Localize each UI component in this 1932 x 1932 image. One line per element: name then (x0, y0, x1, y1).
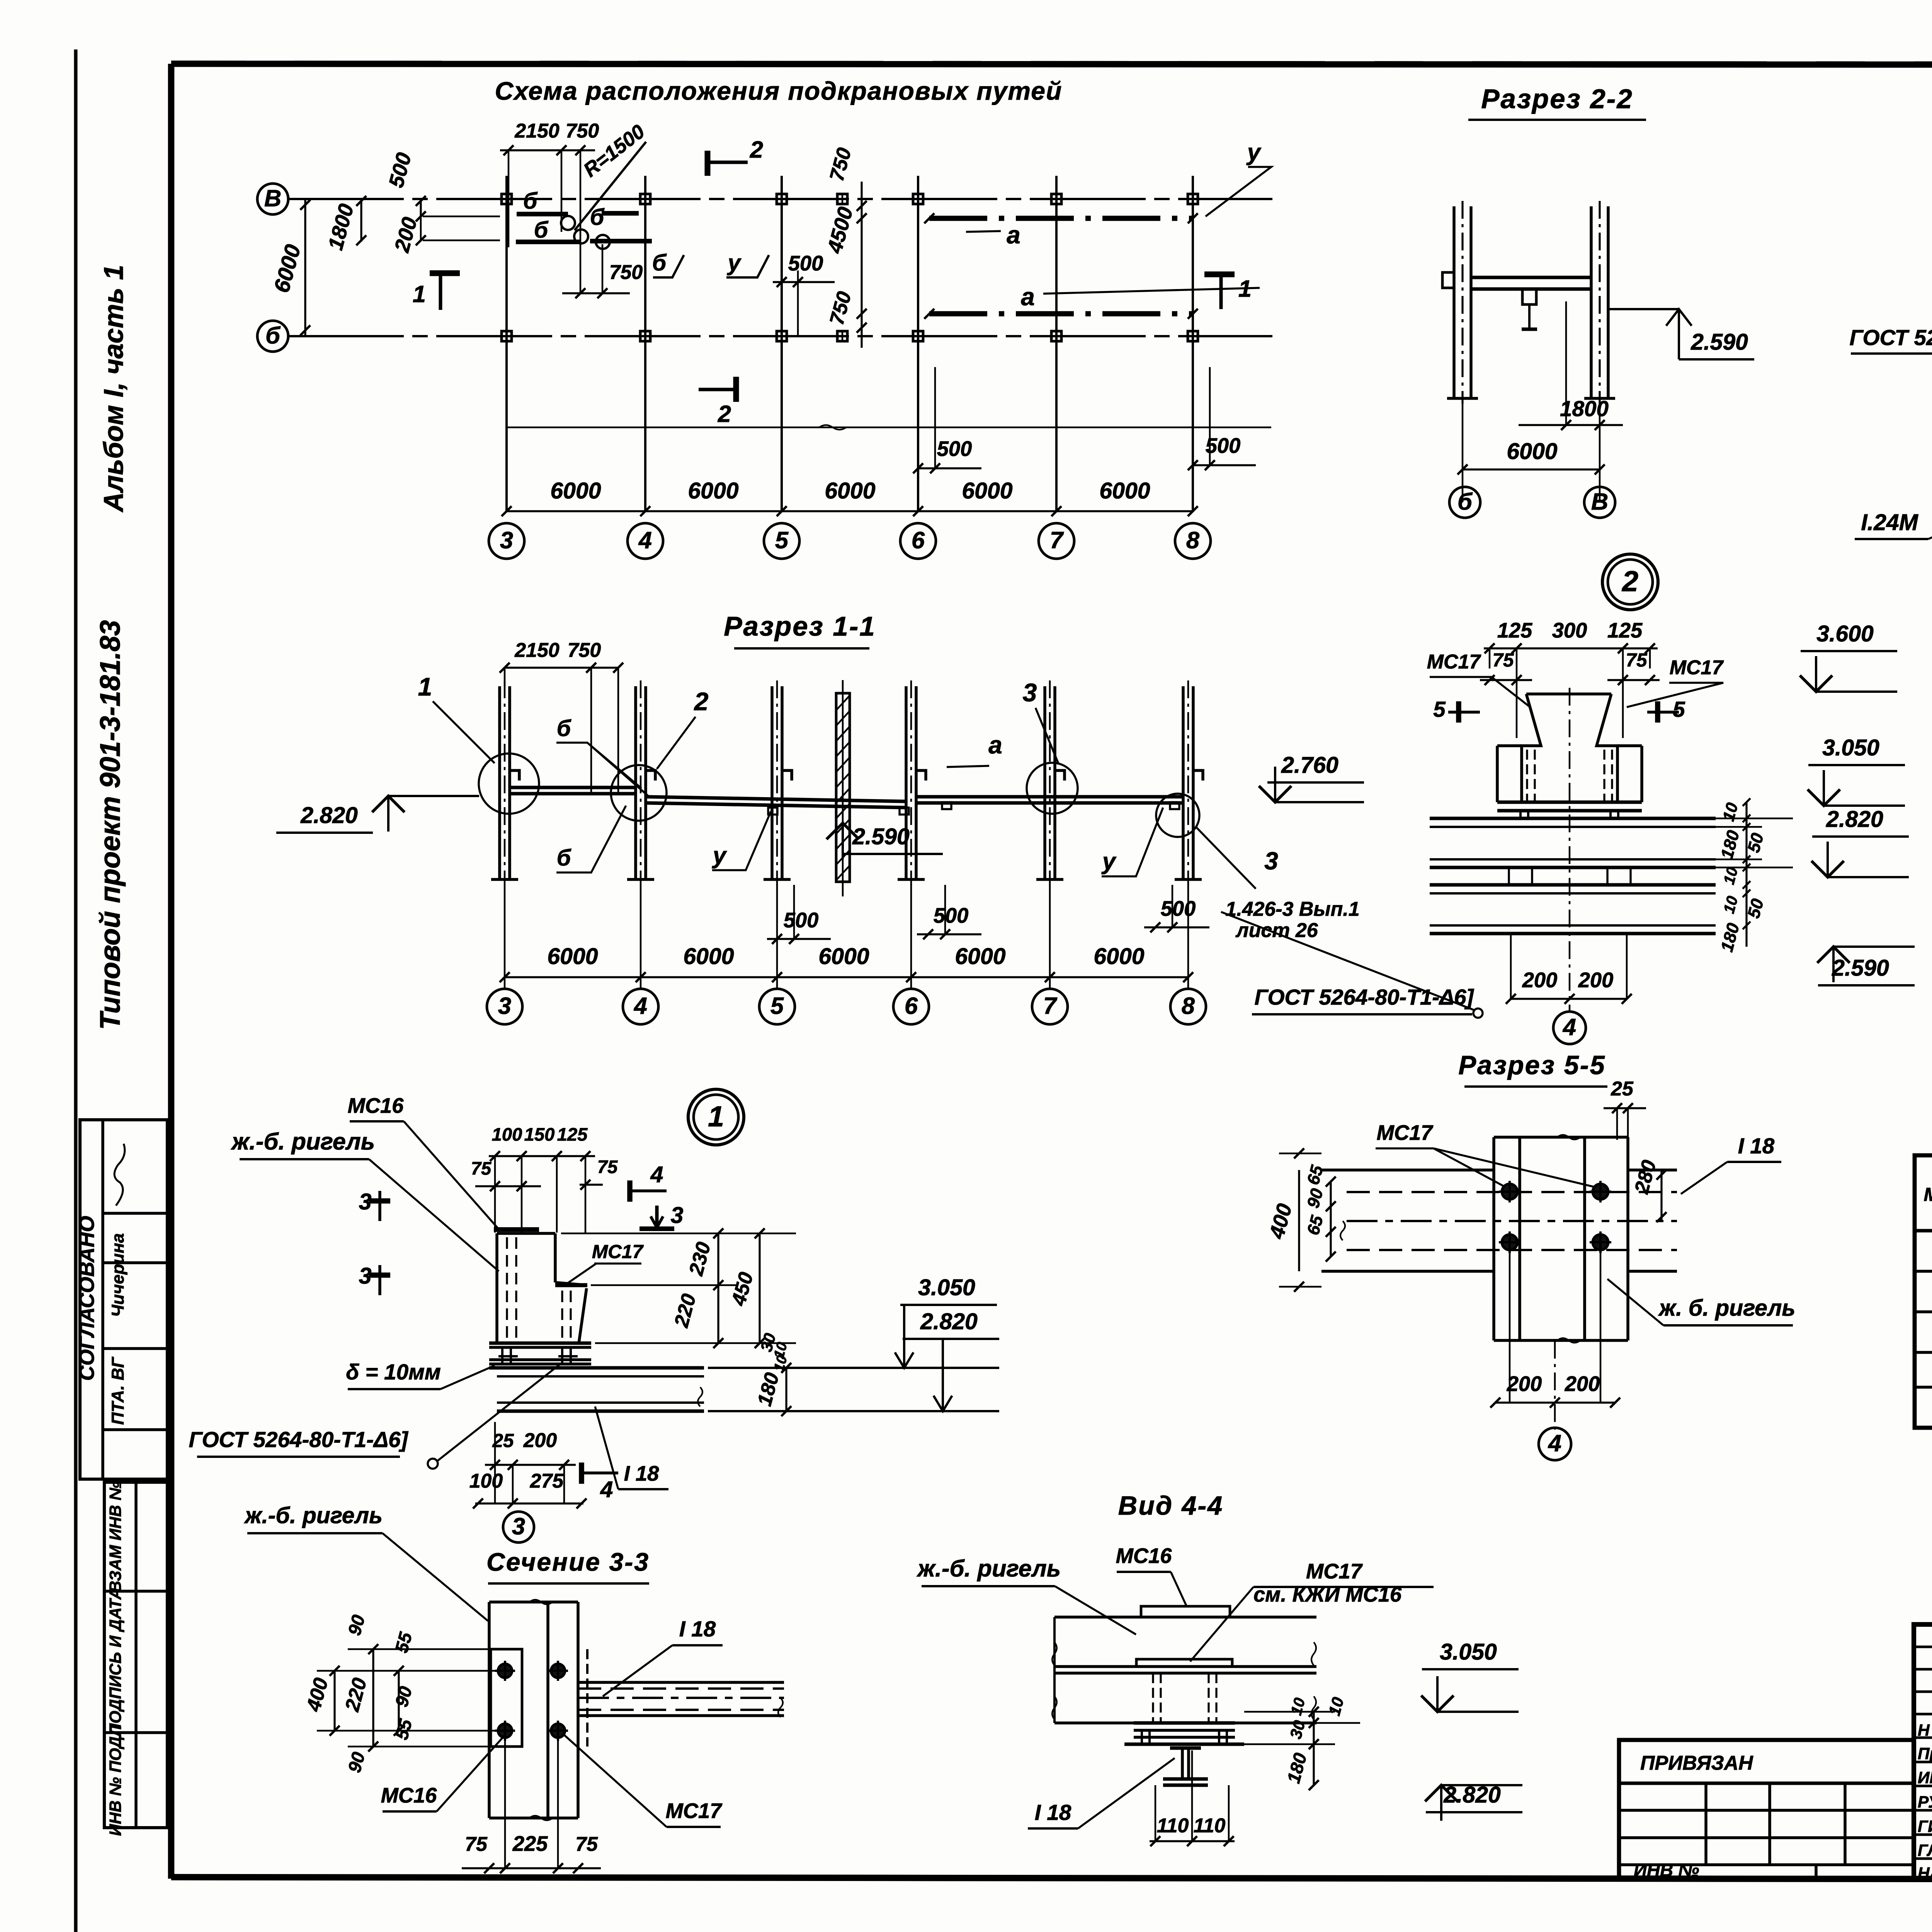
axis bubbles 3-8 (487, 989, 522, 1024)
svg-text:5: 5 (1433, 697, 1446, 722)
section mark 4 top node1 (627, 1180, 633, 1202)
svg-text:2.820: 2.820 (1826, 806, 1883, 832)
svg-text:3: 3 (359, 1189, 372, 1214)
axis bubble 4 5-5 (1539, 1428, 1571, 1460)
column base ticks (1447, 397, 1478, 400)
svg-text:110: 110 (1194, 1815, 1226, 1837)
beam supports hatching small (1509, 867, 1532, 885)
grid line b (288, 335, 1272, 337)
svg-text:I 18: I 18 (624, 1462, 659, 1485)
svg-text:6000: 6000 (688, 478, 738, 503)
svg-text:6000: 6000 (962, 478, 1012, 503)
column body node2 (1522, 694, 1541, 802)
svg-text:3: 3 (498, 993, 511, 1019)
svg-text:750: 750 (566, 120, 599, 142)
svg-text:Схема расположения подкрановых: Схема расположения подкрановых путей (495, 77, 1063, 105)
section 5 marks (1456, 701, 1461, 723)
base plates node2 (1497, 801, 1642, 804)
svg-text:750: 750 (609, 261, 643, 284)
left dims 400 / 65 90 65 (1298, 1170, 1300, 1271)
lower beam (I18) (1430, 883, 1716, 887)
column squares (502, 194, 512, 204)
right column I-section (1590, 206, 1593, 398)
hanger bolts dashed (1152, 1673, 1154, 1723)
svg-text:Вид 4-4: Вид 4-4 (1118, 1491, 1223, 1520)
svg-text:75: 75 (1626, 649, 1648, 671)
I18 rail below (1170, 1747, 1201, 1750)
svg-text:2: 2 (718, 401, 731, 427)
svg-text:6000: 6000 (955, 944, 1005, 969)
crane beam upper level (2.820) cols 3-4 (510, 786, 636, 789)
svg-text:6: 6 (905, 993, 918, 1019)
bolts 5-5 (1502, 1184, 1517, 1199)
svg-text:25: 25 (1611, 1078, 1634, 1100)
column verticals (505, 176, 508, 512)
bottom plate stack (1134, 1721, 1235, 1725)
bottom dimension chain 6000s (507, 510, 1193, 512)
stamp outer (1914, 1624, 1932, 1879)
section mark 2 top (705, 151, 711, 176)
svg-text:500: 500 (788, 252, 823, 275)
svg-text:4: 4 (633, 993, 647, 1019)
section mark 3 down-arrow (655, 1206, 659, 1226)
svg-text:4: 4 (600, 1477, 613, 1502)
svg-text:3: 3 (671, 1202, 684, 1228)
svg-text:4: 4 (638, 527, 652, 554)
table frame (1915, 1155, 1932, 1428)
svg-text:б: б (534, 217, 549, 243)
bolts below plate (501, 1347, 503, 1363)
small dims 10/50/180 right chain (1642, 818, 1793, 820)
svg-text:1: 1 (418, 673, 432, 701)
node bubble 2 (1602, 554, 1658, 610)
svg-text:200: 200 (1565, 1372, 1600, 1396)
left column I-section (1452, 206, 1456, 398)
svg-text:7: 7 (1043, 993, 1058, 1019)
MS16 plate top (1141, 1606, 1230, 1617)
crane rail a lower (929, 311, 1193, 316)
svg-text:ГОСТ 5264-80-Т1-Δ6]: ГОСТ 5264-80-Т1-Δ6] (1849, 326, 1932, 350)
level 2.590 (1608, 308, 1679, 310)
svg-text:125: 125 (557, 1124, 588, 1145)
rail end detail at R=1500 (423, 216, 500, 218)
svg-text:Марка: Марка (1924, 1184, 1932, 1205)
svg-text:1: 1 (708, 1100, 724, 1133)
svg-text:МС16: МС16 (1116, 1544, 1172, 1568)
svg-text:Альбом I, часть 1: Альбом I, часть 1 (99, 265, 129, 512)
svg-text:МС17: МС17 (1670, 656, 1724, 679)
svg-text:2.820: 2.820 (300, 803, 358, 828)
columns with corbels (498, 686, 501, 879)
MS17 plate mid (1136, 1659, 1232, 1667)
svg-text:3: 3 (512, 1513, 525, 1540)
svg-text:125: 125 (1497, 619, 1532, 642)
svg-text:2.590: 2.590 (1690, 329, 1748, 355)
svg-text:200: 200 (1507, 1372, 1542, 1396)
crane rail a upper (dash-dot thick) (929, 216, 1193, 221)
right dim chains node1 (561, 1233, 796, 1235)
svg-text:МС17: МС17 (1306, 1560, 1363, 1583)
axis bubble 4 node2 (1553, 1012, 1586, 1044)
dashed edge MS17 3-3 (586, 1649, 588, 1747)
svg-text:3: 3 (500, 527, 513, 554)
svg-text:3: 3 (1264, 847, 1278, 875)
svg-text:6: 6 (912, 527, 925, 554)
sheet outer edge (74, 49, 78, 1932)
svg-text:1: 1 (1238, 276, 1252, 302)
svg-text:4: 4 (650, 1162, 663, 1187)
svg-text:5: 5 (775, 527, 789, 554)
svg-text:МС16: МС16 (348, 1094, 404, 1117)
svg-text:б: б (265, 322, 281, 349)
svg-text:Разрез 2-2: Разрез 2-2 (1481, 84, 1633, 114)
delta plate (489, 1358, 591, 1361)
svg-text:200: 200 (523, 1429, 557, 1452)
svg-text:200: 200 (1522, 968, 1558, 992)
base plates node1 (489, 1342, 591, 1345)
svg-text:б: б (523, 188, 538, 214)
svg-text:ГОСТ 5264-80-Т1-Δ6]: ГОСТ 5264-80-Т1-Δ6] (189, 1428, 408, 1452)
beam between columns (1471, 276, 1591, 279)
hatched wall column (836, 693, 850, 882)
svg-text:110: 110 (1157, 1815, 1189, 1837)
svg-text:МС17: МС17 (1427, 651, 1481, 673)
svg-text:2: 2 (750, 136, 763, 163)
svg-text:500: 500 (937, 437, 972, 461)
svg-text:а: а (988, 731, 1002, 759)
centerline node2 (1569, 688, 1571, 1012)
svg-text:150: 150 (524, 1124, 555, 1145)
svg-text:ж.-б. ригель: ж.-б. ригель (244, 1503, 383, 1528)
axis bubble b (257, 321, 288, 352)
svg-text:3.050: 3.050 (1440, 1639, 1497, 1665)
svg-text:100: 100 (469, 1470, 503, 1492)
svg-text:300: 300 (1552, 619, 1587, 642)
right small dims 10/30/180 4-4 (1244, 1711, 1335, 1713)
svg-text:I 18: I 18 (679, 1617, 716, 1641)
section mark 2 bottom (733, 377, 739, 402)
break line mid (507, 427, 1271, 429)
svg-text:ж.-б. ригель: ж.-б. ригель (231, 1128, 375, 1155)
svg-text:2150: 2150 (514, 120, 560, 142)
axis bubble V (1584, 487, 1615, 518)
svg-text:ВЗАМ ИНВ №: ВЗАМ ИНВ № (107, 1481, 125, 1592)
svg-text:500: 500 (784, 908, 819, 932)
axis bubbles 3..8 (489, 523, 524, 559)
section mark 1 right (1204, 272, 1235, 277)
svg-text:100: 100 (492, 1124, 522, 1145)
svg-text:8: 8 (1182, 993, 1195, 1019)
svg-text:у: у (1101, 848, 1117, 875)
svg-text:2.590: 2.590 (852, 824, 910, 849)
callout 3 (col8 lower) + ref (1156, 794, 1199, 837)
svg-text:МС17: МС17 (592, 1241, 644, 1262)
svg-text:I 18: I 18 (1035, 1801, 1071, 1825)
svg-text:2.590: 2.590 (1832, 955, 1889, 981)
grid line V (288, 198, 1272, 200)
svg-text:ж. б. ригель: ж. б. ригель (1658, 1295, 1796, 1321)
margin stamp box B (INV/PODPIS) (104, 1482, 167, 1828)
svg-text:ИНВ № ПОДЛ: ИНВ № ПОДЛ (107, 1725, 125, 1836)
svg-text:1: 1 (413, 281, 426, 308)
stamp rows left part (1914, 1646, 1932, 1648)
svg-text:Разрез 5-5: Разрез 5-5 (1458, 1050, 1605, 1080)
axis bubble V (257, 184, 288, 214)
PRIVYAZAN box (1619, 1740, 1914, 1879)
svg-text:4: 4 (1548, 1430, 1561, 1457)
svg-text:В: В (264, 185, 281, 212)
level 2.590 wall (827, 823, 859, 839)
svg-text:500: 500 (1161, 897, 1196, 920)
beam I18 right 3-3 (578, 1681, 784, 1684)
svg-text:у: у (712, 842, 727, 869)
svg-text:у: у (727, 250, 742, 276)
svg-text:75: 75 (597, 1157, 618, 1177)
svg-text:200: 200 (1578, 968, 1614, 992)
svg-text:6000: 6000 (1094, 944, 1144, 969)
section mark 4 bottom node1 (579, 1463, 584, 1484)
svg-text:δ = 10мм: δ = 10мм (346, 1360, 441, 1384)
svg-text:75: 75 (575, 1833, 598, 1855)
column band 5-5 (1492, 1137, 1495, 1340)
svg-text:у: у (1246, 139, 1262, 166)
svg-text:2: 2 (1621, 565, 1638, 598)
svg-text:6000: 6000 (547, 944, 598, 969)
svg-text:4: 4 (1562, 1014, 1576, 1041)
svg-text:1.426-3 Вып.1: 1.426-3 Вып.1 (1225, 898, 1359, 920)
svg-text:Чичерина: Чичерина (108, 1233, 128, 1317)
drawing frame (171, 64, 1932, 65)
svg-text:5: 5 (770, 993, 784, 1019)
section mark 1 left (430, 270, 460, 276)
levels node1 3.050/2.820 (708, 1367, 999, 1369)
svg-text:2.760: 2.760 (1281, 752, 1338, 778)
dashed bolts in column (1526, 750, 1528, 802)
svg-text:СОГЛАСОВАНО: СОГЛАСОВАНО (75, 1216, 99, 1381)
svg-text:6000: 6000 (818, 944, 869, 969)
svg-text:МС17: МС17 (666, 1799, 723, 1823)
svg-text:РУК.ГР: РУК.ГР (1918, 1793, 1932, 1811)
svg-text:б: б (1458, 488, 1473, 515)
node bubble 1 (688, 1089, 744, 1145)
svg-text:ИНВ №: ИНВ № (1634, 1860, 1699, 1881)
svg-text:6000: 6000 (825, 478, 875, 503)
svg-text:В: В (1591, 488, 1608, 515)
svg-text:75: 75 (465, 1833, 488, 1855)
svg-text:а: а (1007, 221, 1020, 249)
svg-text:125: 125 (1607, 619, 1643, 642)
upor small marks under beam (768, 808, 777, 815)
svg-text:3.600: 3.600 (1816, 621, 1874, 646)
svg-text:1800: 1800 (1560, 397, 1609, 421)
beam I18 through 5-5 (1321, 1168, 1494, 1172)
svg-text:3.050: 3.050 (1822, 735, 1879, 760)
svg-text:НАЧ.ОТД.: НАЧ.ОТД. (1918, 1864, 1932, 1883)
rigel band (1054, 1616, 1316, 1619)
top plate MS16 on column (494, 1227, 539, 1232)
signature squiggle (114, 1144, 125, 1206)
axis bubble b (1449, 487, 1480, 518)
svg-text:8: 8 (1186, 527, 1200, 554)
svg-text:ПТА. ВГ: ПТА. ВГ (108, 1356, 128, 1425)
svg-text:275: 275 (530, 1470, 564, 1492)
svg-text:500: 500 (1206, 434, 1241, 457)
svg-text:МС17: МС17 (1377, 1121, 1434, 1145)
svg-text:I.24М: I.24М (1861, 510, 1918, 535)
svg-text:Пров.: Пров. (1918, 1745, 1932, 1763)
svg-text:225: 225 (512, 1832, 548, 1855)
svg-text:Сечение 3-3: Сечение 3-3 (486, 1548, 650, 1577)
svg-text:ИНЖ: ИНЖ (1918, 1769, 1932, 1787)
I18 beam node1 (497, 1366, 704, 1370)
svg-text:б: б (590, 204, 605, 230)
svg-text:Н контр: Н контр (1918, 1721, 1932, 1740)
svg-text:2: 2 (694, 687, 709, 716)
svg-text:6000: 6000 (683, 944, 734, 969)
svg-text:3: 3 (1023, 679, 1037, 707)
svg-text:Типовой проект 901-3-181.83: Типовой проект 901-3-181.83 (94, 620, 126, 1030)
svg-text:Разрез 1-1: Разрез 1-1 (724, 611, 876, 642)
dim chain 6000 (505, 976, 1188, 978)
hanging upor detail (1522, 289, 1536, 304)
svg-text:750: 750 (568, 639, 601, 662)
svg-text:ГИП: ГИП (1918, 1818, 1932, 1836)
bolts between plate and beam (1519, 811, 1522, 818)
svg-text:6000: 6000 (1507, 439, 1557, 464)
svg-text:5: 5 (1673, 697, 1685, 722)
plate MS16 3-3 (491, 1649, 522, 1747)
svg-text:75: 75 (471, 1158, 492, 1179)
180 dim node1 (708, 1410, 999, 1412)
circle 3 node1 (503, 1512, 534, 1543)
svg-text:2.820: 2.820 (920, 1309, 978, 1334)
svg-text:7: 7 (1050, 527, 1064, 554)
svg-text:75: 75 (1492, 649, 1514, 671)
svg-text:ПРИВЯЗАН: ПРИВЯЗАН (1640, 1752, 1753, 1774)
corbel left (1442, 272, 1454, 288)
bolts 3-3 (498, 1664, 512, 1678)
svg-text:6000: 6000 (1099, 478, 1150, 503)
svg-text:ПОДПИСЬ И ДАТА: ПОДПИСЬ И ДАТА (107, 1588, 125, 1735)
section 3 marks left (369, 1198, 390, 1204)
svg-text:I 18: I 18 (1738, 1134, 1775, 1158)
dashed bolts node1 column (506, 1237, 508, 1341)
column node1 (497, 1232, 555, 1235)
svg-text:2150: 2150 (514, 639, 560, 662)
svg-text:ГЛ.КОНСТР.: ГЛ.КОНСТР. (1918, 1842, 1932, 1860)
svg-text:ж.-б. ригель: ж.-б. ригель (917, 1555, 1061, 1582)
svg-text:а: а (1021, 283, 1034, 311)
svg-text:3.050: 3.050 (918, 1275, 975, 1300)
crane beam lower level cols 4-8 (646, 797, 906, 801)
crane beam cross (I24M) (1430, 817, 1716, 820)
svg-text:МС16: МС16 (381, 1784, 437, 1807)
svg-text:б: б (557, 716, 571, 741)
left dim chains 3-3 (348, 1648, 491, 1650)
corbel plate MS17 (555, 1283, 587, 1287)
svg-text:500: 500 (934, 904, 969, 927)
svg-text:3: 3 (359, 1263, 372, 1289)
svg-text:б: б (652, 250, 667, 276)
svg-text:б: б (557, 845, 571, 871)
margin stamp box A (SOGLASOVANO) (80, 1120, 167, 1479)
column band 3-3 (488, 1602, 491, 1818)
svg-text:6000: 6000 (550, 478, 601, 503)
